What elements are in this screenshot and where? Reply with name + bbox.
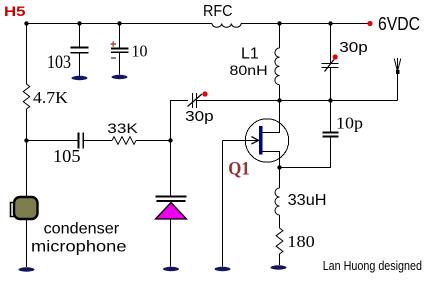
wire left rail lower xyxy=(26,109,28,197)
ground under gate xyxy=(215,267,231,271)
wire 180 to ground xyxy=(279,254,281,265)
wire top supply rail left segment xyxy=(26,23,212,25)
transistor Q1 label xyxy=(228,159,250,180)
ground under 10 xyxy=(112,75,128,79)
svg-text:30p: 30p xyxy=(339,39,368,56)
svg-text:103: 103 xyxy=(47,52,71,73)
wire up to trimmer 30p xyxy=(171,101,189,141)
svg-text:10p: 10p xyxy=(336,114,363,133)
inductor RFC xyxy=(203,3,241,27)
svg-text:6VDC: 6VDC xyxy=(378,14,420,34)
ground under varactor xyxy=(163,267,179,271)
junction source node xyxy=(277,165,281,169)
ground under 103 xyxy=(72,76,88,80)
resistor R 180 xyxy=(276,228,315,254)
varactor diode D1 xyxy=(156,197,187,267)
transistor Q1 circle xyxy=(245,119,288,162)
capacitor C 10 electrolytic xyxy=(111,24,148,75)
designer credit xyxy=(323,258,422,273)
svg-text:Q1: Q1 xyxy=(228,159,250,180)
wire gate to ground xyxy=(222,141,224,267)
wire mid rail segment a xyxy=(27,140,79,142)
resistor R 4.7K xyxy=(23,84,68,109)
junction tank rail right xyxy=(328,98,332,102)
condenser microphone symbol xyxy=(11,197,38,219)
svg-text:30p: 30p xyxy=(185,108,214,125)
microphone caption xyxy=(31,221,127,256)
transistor Q1 channel bar xyxy=(259,126,263,155)
capacitor C 103 xyxy=(47,24,89,77)
node H5 label xyxy=(4,3,26,19)
ground under 180 xyxy=(271,265,287,269)
junction cap10 top xyxy=(117,21,121,25)
capacitor C 105 xyxy=(53,133,83,167)
ground under microphone xyxy=(19,267,35,271)
inductor L1 80nH xyxy=(230,24,280,101)
svg-text:L1: L1 xyxy=(241,46,259,63)
wire mid rail segment b xyxy=(83,140,112,142)
junction mid-left xyxy=(24,138,28,142)
svg-text:80nH: 80nH xyxy=(230,62,268,78)
wire mid rail segment c xyxy=(136,140,171,142)
power terminal 6VDC xyxy=(367,14,420,34)
svg-text:Lan Huong designed: Lan Huong designed xyxy=(323,258,422,273)
capacitor trimmer 30p left xyxy=(185,91,214,125)
capacitor C 10p xyxy=(323,101,364,137)
svg-text:33uH: 33uH xyxy=(288,192,327,209)
transistor Q1 drain lead xyxy=(263,101,280,133)
junction mid-right xyxy=(168,138,172,142)
wire 33K node to varactor xyxy=(170,141,172,197)
svg-text:H5: H5 xyxy=(4,3,26,19)
svg-text:condenser: condenser xyxy=(44,221,120,238)
svg-text:180: 180 xyxy=(287,232,315,251)
wire top supply rail right segment xyxy=(241,23,368,25)
antenna xyxy=(394,58,401,101)
junction top-left corner xyxy=(24,21,28,25)
wire 33uH to 180 xyxy=(279,215,281,228)
capacitor trimmer 30p right xyxy=(322,24,368,101)
wire left rail upper xyxy=(26,24,28,85)
transistor Q1 gate wire and arrow xyxy=(223,137,259,144)
svg-text:33K: 33K xyxy=(107,121,138,136)
junction L1 top xyxy=(277,21,281,25)
wire mic to ground xyxy=(26,219,28,267)
svg-text:105: 105 xyxy=(53,146,81,166)
resistor R 33K xyxy=(107,121,138,144)
wire tank rail xyxy=(197,100,398,102)
svg-text:microphone: microphone xyxy=(31,239,127,256)
svg-text:4.7K: 4.7K xyxy=(33,88,69,107)
transistor Q1 source lead xyxy=(263,152,280,168)
wire source node to 10p xyxy=(280,137,331,168)
svg-text:RFC: RFC xyxy=(203,3,233,20)
junction cap103 top xyxy=(77,21,81,25)
svg-text:10: 10 xyxy=(132,42,148,61)
junction trimmer30p right top xyxy=(328,21,332,25)
inductor L 33uH xyxy=(275,188,327,215)
wire source to 33uH xyxy=(279,168,281,189)
junction L1 bottom xyxy=(277,98,281,102)
